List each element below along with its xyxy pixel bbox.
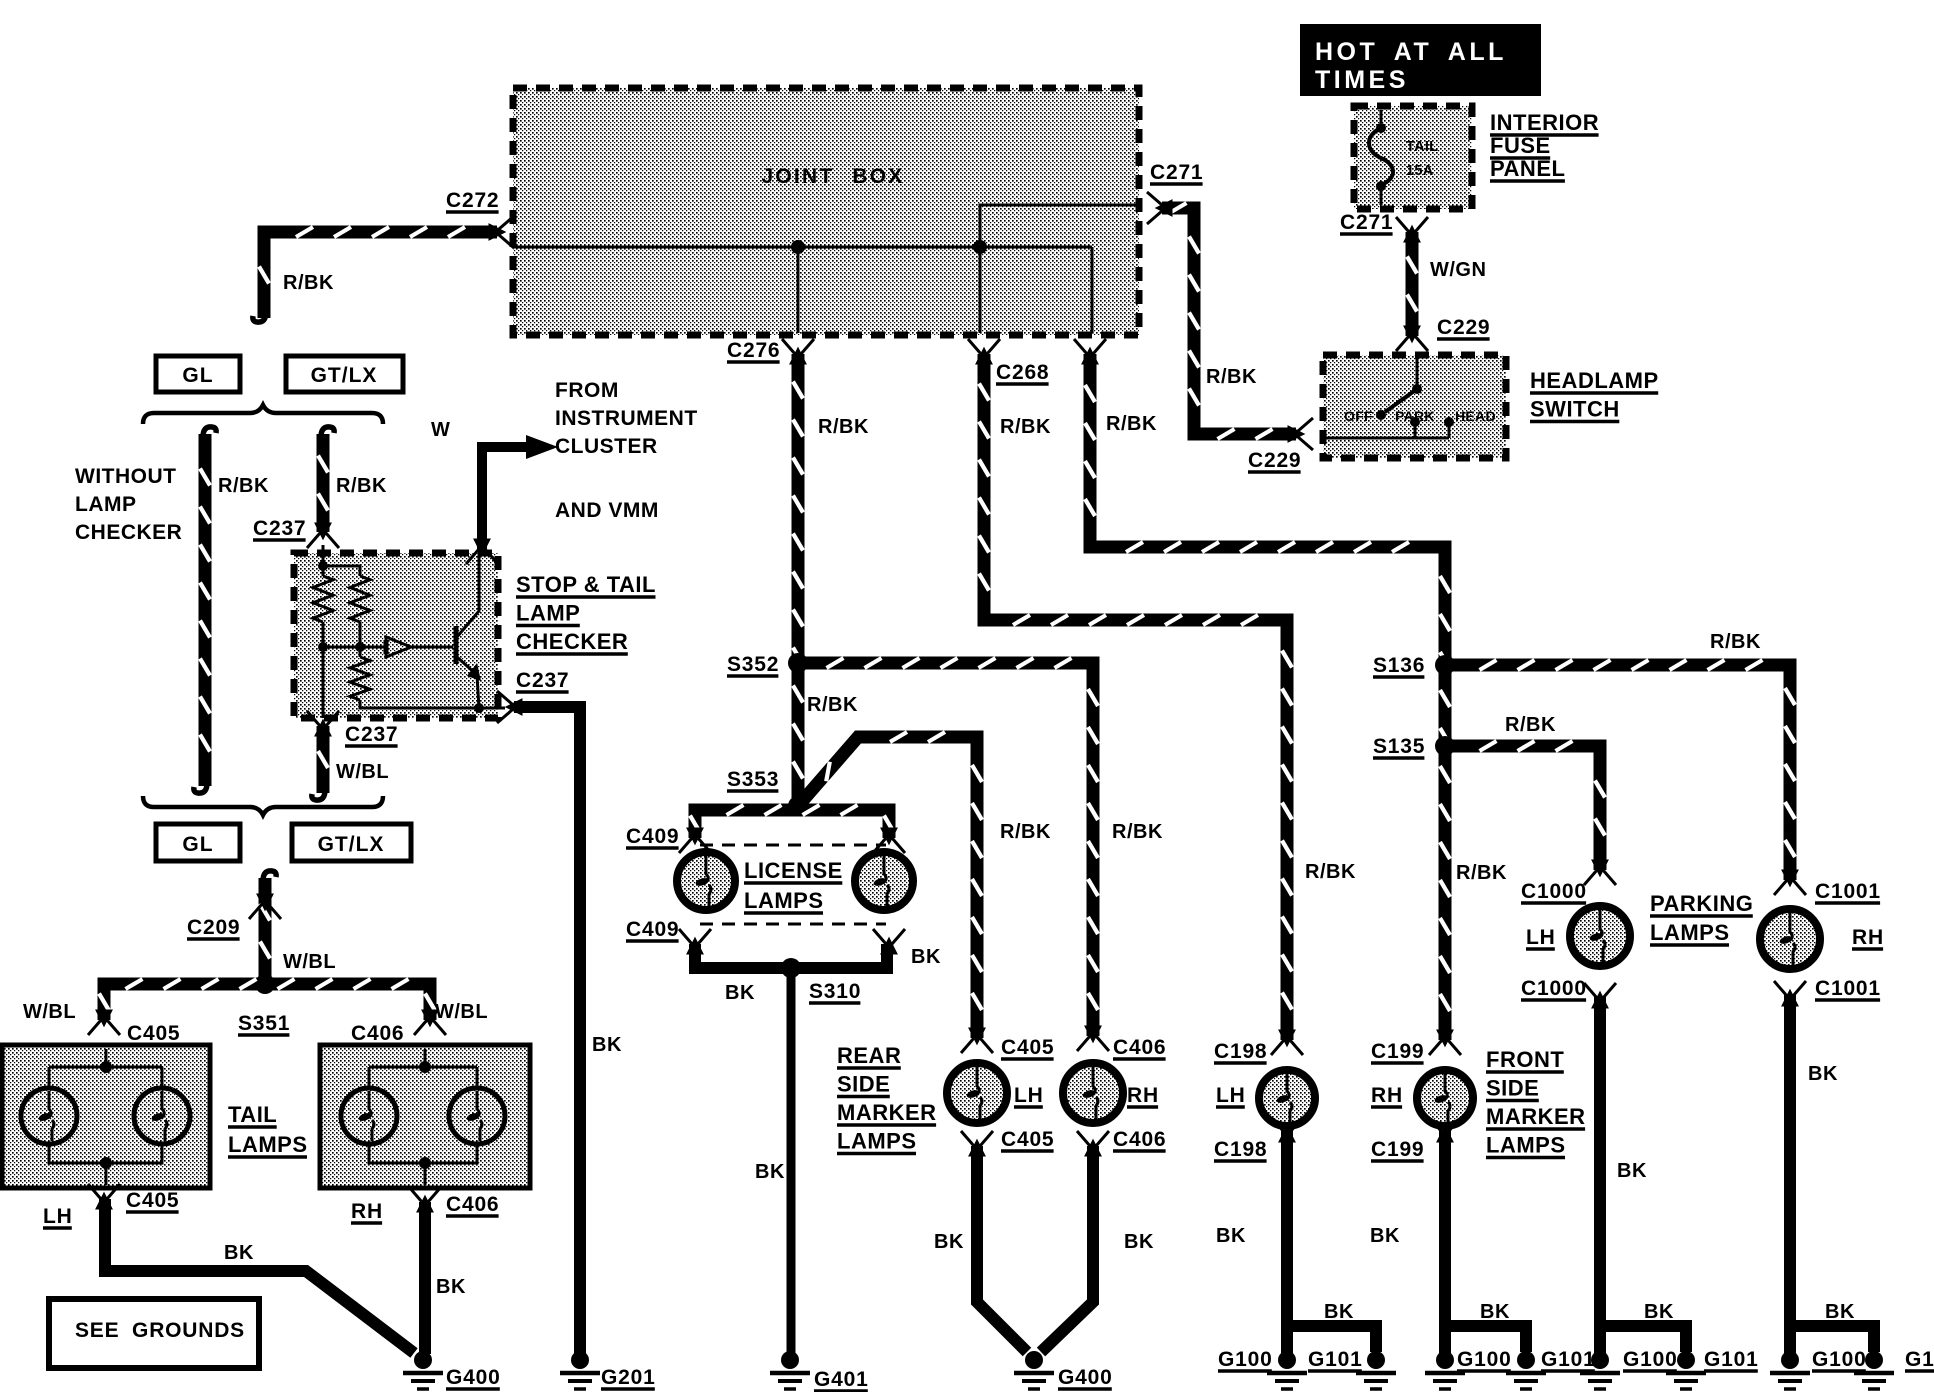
label R/BK GT/LX: [336, 475, 387, 497]
ground G400 left: [403, 1351, 443, 1389]
wire BK license lamps to S310: [695, 944, 887, 968]
wire BK LH front marker ground stub: [1287, 1326, 1376, 1352]
wire BK S310 to G401: [787, 968, 796, 1354]
wire BK LH front marker ground G100: [1267, 1351, 1307, 1389]
svg-text:R/BK: R/BK: [1112, 821, 1163, 843]
title PARKING LAMPS: [1650, 891, 1753, 945]
connector C268 exit1: [968, 339, 1000, 363]
arrowhead to instrument cluster: [526, 435, 558, 459]
svg-text:BK: BK: [934, 1231, 964, 1253]
wire R/BK from C272 to joint box: [259, 227, 497, 318]
HOT AT ALL TIMES box: [1300, 24, 1541, 96]
wire R/BK joint box C271 to switch C229: [1162, 203, 1296, 439]
svg-text:S135: S135: [1373, 735, 1425, 758]
svg-text:LAMPS: LAMPS: [1650, 920, 1730, 945]
svg-text:BK: BK: [1808, 1063, 1838, 1085]
svg-text:W/BL: W/BL: [283, 951, 336, 973]
wire BK RH front marker ground stub: [1445, 1326, 1526, 1352]
wire BK LH parking lamp ground stub: [1600, 1326, 1686, 1352]
svg-text:R/BK: R/BK: [1000, 416, 1051, 438]
svg-text:W/BL: W/BL: [336, 761, 389, 783]
connector C406 tail top: [414, 1011, 446, 1035]
svg-text:G100: G100: [1812, 1348, 1867, 1371]
label S135: [1373, 735, 1425, 758]
connector C1001 top: [1774, 871, 1806, 895]
svg-text:C409: C409: [626, 918, 679, 941]
parking lamp LH: [1570, 906, 1630, 966]
connector C405 rear top: [961, 1029, 993, 1053]
svg-text:BK: BK: [592, 1034, 622, 1056]
checker resistor R1: [313, 576, 333, 622]
svg-text:G101: G101: [1905, 1348, 1934, 1371]
label RH parking: [1852, 926, 1884, 949]
ground G201: [560, 1351, 600, 1389]
connector C1001 bottom: [1774, 981, 1806, 1005]
wire BK RH rear marker to G400: [1041, 1146, 1093, 1352]
svg-text:RH: RH: [1852, 926, 1884, 949]
headlamp switch contacts: [1323, 357, 1496, 438]
label G101 pair1: [1308, 1348, 1363, 1371]
svg-text:REAR: REAR: [837, 1043, 901, 1068]
svg-text:S352: S352: [727, 653, 779, 676]
svg-text:LAMPS: LAMPS: [837, 1129, 917, 1154]
joint box: [513, 88, 1139, 335]
label C198 top: [1214, 1040, 1267, 1063]
wire W/BL S351 to tail lamps: [99, 979, 435, 1020]
connector C198 top: [1271, 1031, 1303, 1055]
label BK park RH: [1808, 1063, 1838, 1085]
svg-text:C406: C406: [1113, 1128, 1166, 1151]
svg-text:C1000: C1000: [1521, 880, 1587, 903]
wire BK RH parking lamp ground G100: [1770, 1351, 1810, 1389]
connector C271 joint box: [1147, 192, 1171, 224]
svg-text:G101: G101: [1704, 1348, 1759, 1371]
wire BK RH parking lamp ground G101: [1854, 1351, 1894, 1389]
svg-text:R/BK: R/BK: [218, 475, 269, 497]
svg-text:W/GN: W/GN: [1430, 259, 1486, 281]
label W/BL left: [23, 1001, 76, 1023]
svg-text:BK: BK: [1825, 1301, 1855, 1323]
checker resistor R3: [350, 657, 370, 700]
label G100 pair4: [1812, 1348, 1867, 1371]
label RH front marker: [1371, 1084, 1403, 1107]
svg-text:PANEL: PANEL: [1490, 156, 1565, 181]
wire R/BK GL branch: [200, 434, 210, 786]
wire BK LH rear marker to G400: [977, 1146, 1027, 1352]
label BK stub2: [1480, 1301, 1510, 1323]
wire BK RH parking lamp: [1784, 994, 1796, 1354]
connector C409 right top: [873, 829, 905, 853]
joint box junction node 1: [791, 240, 805, 254]
label R/BK front RH: [1456, 862, 1507, 884]
svg-text:G400: G400: [1058, 1366, 1113, 1389]
label R/BK C272: [283, 272, 334, 294]
label C405 rear top: [1001, 1036, 1054, 1059]
svg-text:C1000: C1000: [1521, 977, 1587, 1000]
hook top GT/LX wire: [321, 427, 334, 437]
svg-text:RH: RH: [351, 1200, 383, 1223]
label S351: [238, 1012, 290, 1035]
svg-text:C271: C271: [1150, 161, 1203, 184]
svg-text:STOP & TAIL: STOP & TAIL: [516, 572, 656, 597]
connector C237 top: [307, 524, 339, 548]
svg-text:JOINT BOX: JOINT BOX: [762, 165, 905, 188]
connector C271 fuse: [1396, 217, 1428, 241]
title STOP & TAIL LAMP CHECKER: [516, 572, 656, 654]
label C1001 bottom: [1815, 977, 1881, 1000]
wire BK RH parking lamp ground stub: [1790, 1326, 1874, 1352]
wire R/BK S353 branch to LH rear marker: [798, 732, 982, 1038]
title TAIL LAMPS: [228, 1102, 308, 1157]
svg-text:BK: BK: [1617, 1160, 1647, 1182]
wire BK RH front marker ground G101: [1506, 1351, 1546, 1389]
svg-text:GL: GL: [182, 364, 213, 387]
label BK G201: [592, 1034, 622, 1056]
label R/BK rear LH: [1000, 821, 1051, 843]
tail lamp LH bulb 2: [134, 1088, 190, 1144]
connector C276: [782, 339, 814, 363]
tail lamp LH bulb 1: [21, 1088, 77, 1144]
svg-text:G101: G101: [1308, 1348, 1363, 1371]
label G100 pair1: [1218, 1348, 1273, 1371]
brace bottom: [143, 796, 383, 815]
svg-text:G101: G101: [1541, 1348, 1596, 1371]
label BK license left: [725, 982, 755, 1004]
label LH tail: [43, 1205, 73, 1228]
tail lamp LH internal wiring: [49, 1049, 162, 1185]
rear side marker lamp RH: [1063, 1063, 1123, 1123]
connector C409 left bottom: [679, 929, 711, 953]
SEE GROUNDS box: [49, 1299, 259, 1368]
label S310: [809, 980, 861, 1003]
label W/BL right: [435, 1001, 488, 1023]
label C409 bottom: [626, 918, 679, 941]
svg-text:C409: C409: [626, 825, 679, 848]
svg-text:BK: BK: [224, 1242, 254, 1264]
fuse TAIL 15A: [1369, 110, 1438, 205]
label C406 rear bottom: [1113, 1128, 1166, 1151]
svg-text:R/BK: R/BK: [1206, 366, 1257, 388]
wire BK RH front marker ground G100: [1425, 1351, 1465, 1389]
label R/BK C276: [818, 416, 869, 438]
svg-text:FUSE: FUSE: [1490, 133, 1551, 158]
title LICENSE LAMPS: [744, 858, 843, 913]
tail lamp RH internal wiring: [369, 1049, 477, 1185]
svg-text:C271: C271: [1340, 211, 1393, 234]
wire R/BK C268 exit1 to LH front marker: [979, 354, 1292, 1040]
svg-text:INTERIOR: INTERIOR: [1490, 110, 1599, 135]
connector C1000 top: [1584, 861, 1616, 885]
label R/BK C271: [1206, 366, 1257, 388]
label G201: [601, 1366, 656, 1389]
svg-text:W/BL: W/BL: [435, 1001, 488, 1023]
GL box bottom: [156, 824, 240, 861]
label C405 tail bottom: [126, 1189, 179, 1212]
connector C272: [490, 216, 514, 248]
label BK license right: [911, 946, 941, 968]
front side marker lamp LH: [1259, 1070, 1315, 1126]
svg-text:HEAD: HEAD: [1455, 408, 1496, 424]
svg-text:GL: GL: [182, 833, 213, 856]
svg-text:R/BK: R/BK: [818, 416, 869, 438]
wire license lamps feed: [690, 805, 894, 838]
joint box internal bus wire: [513, 205, 1139, 333]
svg-text:RH: RH: [1371, 1084, 1403, 1107]
splice S352: [788, 653, 808, 673]
svg-text:BK: BK: [436, 1276, 466, 1298]
label BK tail diag: [436, 1276, 466, 1298]
splice S136: [1435, 655, 1455, 675]
label C276: [727, 339, 780, 362]
label BK rear LH: [934, 1231, 964, 1253]
svg-text:BK: BK: [1216, 1225, 1246, 1247]
wire BK LH parking lamp ground G101: [1666, 1351, 1706, 1389]
GT/LX box top: [286, 356, 403, 392]
svg-text:R/BK: R/BK: [336, 475, 387, 497]
label BK front RH: [1370, 1225, 1400, 1247]
connector at checker top for W: [466, 540, 498, 564]
svg-text:MARKER: MARKER: [1486, 1104, 1586, 1129]
label C406 tail top: [351, 1022, 404, 1045]
interior fuse panel box: [1354, 106, 1472, 209]
svg-text:S351: S351: [238, 1012, 290, 1035]
checker emitter node: [474, 703, 484, 713]
splice S353: [788, 796, 808, 816]
wire BK LH parking lamp ground G100: [1580, 1351, 1620, 1389]
label G101 pair3: [1704, 1348, 1759, 1371]
svg-text:CHECKER: CHECKER: [75, 521, 182, 544]
svg-text:INSTRUMENT: INSTRUMENT: [555, 407, 698, 430]
svg-text:C406: C406: [1113, 1036, 1166, 1059]
label W/BL top: [283, 951, 336, 973]
stop and tail lamp checker box: [294, 553, 498, 718]
label C405 rear bottom: [1001, 1128, 1054, 1151]
svg-text:BK: BK: [755, 1161, 785, 1183]
wire R/BK C268 exit2 to front lamps bus: [1085, 354, 1450, 1040]
connector C199 top: [1429, 1031, 1461, 1055]
label G101 pair2: [1541, 1348, 1596, 1371]
svg-text:C199: C199: [1371, 1138, 1424, 1161]
connector C237 bottom: [307, 711, 339, 735]
label C406 rear top: [1113, 1036, 1166, 1059]
svg-text:C268: C268: [996, 361, 1049, 384]
svg-text:CHECKER: CHECKER: [516, 629, 628, 654]
label G401: [814, 1368, 869, 1391]
label BK stub3: [1644, 1301, 1674, 1323]
checker buffer symbol: [386, 637, 411, 657]
label BK front LH: [1216, 1225, 1246, 1247]
label RH rear marker: [1127, 1084, 1159, 1107]
svg-text:W: W: [431, 419, 450, 441]
svg-text:BK: BK: [1480, 1301, 1510, 1323]
svg-text:GT/LX: GT/LX: [311, 364, 378, 387]
label BK park LH: [1617, 1160, 1647, 1182]
label R/BK S135: [1505, 714, 1556, 736]
svg-text:C1001: C1001: [1815, 880, 1881, 903]
label G100 pair3: [1623, 1348, 1678, 1371]
svg-text:CLUSTER: CLUSTER: [555, 435, 658, 458]
label C199 top: [1371, 1040, 1424, 1063]
title FROM INSTRUMENT CLUSTER: [555, 379, 698, 458]
svg-text:C199: C199: [1371, 1040, 1424, 1063]
svg-text:S310: S310: [809, 980, 861, 1003]
ground G401: [770, 1351, 810, 1389]
svg-text:S353: S353: [727, 768, 779, 791]
label R/BK below S352: [807, 694, 858, 716]
svg-text:BK: BK: [725, 982, 755, 1004]
title INTERIOR FUSE PANEL: [1490, 110, 1599, 181]
checker node base-divider: [318, 642, 365, 652]
svg-text:WITHOUT: WITHOUT: [75, 465, 176, 488]
wire R/BK S136 branch to RH parking: [1452, 660, 1795, 880]
label C409 top: [626, 825, 679, 848]
svg-text:C405: C405: [126, 1189, 179, 1212]
svg-text:C405: C405: [1001, 1128, 1054, 1151]
label S353: [727, 768, 779, 791]
GL box top: [156, 356, 240, 392]
svg-text:C209: C209: [187, 916, 240, 939]
label C1001 top: [1815, 880, 1881, 903]
wire W/GN fuse to switch: [1407, 232, 1417, 336]
title HEADLAMP SWITCH: [1530, 368, 1659, 422]
wire R/BK S352 branch to RH rear marker: [805, 658, 1098, 1036]
connector C229 fuse side: [1396, 327, 1428, 351]
svg-text:FROM: FROM: [555, 379, 619, 402]
splice S310: [781, 958, 801, 978]
svg-text:R/BK: R/BK: [283, 272, 334, 294]
svg-text:SIDE: SIDE: [1486, 1076, 1539, 1101]
svg-text:LH: LH: [1526, 926, 1556, 949]
svg-text:W/BL: W/BL: [23, 1001, 76, 1023]
label C268: [996, 361, 1049, 384]
wire R/BK C276 to S353: [793, 354, 803, 806]
svg-text:PARKING: PARKING: [1650, 891, 1753, 916]
label G101 pair4: [1905, 1348, 1934, 1371]
wire BK RH tail lamp to G400: [419, 1202, 431, 1354]
label R/BK S136: [1710, 631, 1761, 653]
svg-text:R/BK: R/BK: [1000, 821, 1051, 843]
connector C199 bottom: [1429, 1117, 1461, 1141]
tail lamp RH bulb 2: [449, 1088, 505, 1144]
label RH tail: [351, 1200, 383, 1223]
title REAR SIDE MARKER LAMPS: [837, 1043, 937, 1154]
svg-text:R/BK: R/BK: [1456, 862, 1507, 884]
front side marker lamp RH: [1417, 1070, 1473, 1126]
GT/LX box bottom: [292, 824, 411, 861]
wire BK LH front marker: [1281, 1130, 1293, 1354]
svg-text:G401: G401: [814, 1368, 869, 1391]
svg-text:C272: C272: [446, 189, 499, 212]
svg-text:C198: C198: [1214, 1138, 1267, 1161]
checker transistor Q1: [456, 553, 481, 708]
svg-text:RH: RH: [1127, 1084, 1159, 1107]
connector C409 left top: [679, 829, 711, 853]
svg-text:LAMPS: LAMPS: [744, 888, 824, 913]
svg-text:C229: C229: [1248, 449, 1301, 472]
svg-text:LAMPS: LAMPS: [1486, 1133, 1566, 1158]
svg-text:C237: C237: [345, 723, 398, 746]
label BK rear RH: [1124, 1231, 1154, 1253]
svg-text:C276: C276: [727, 339, 780, 362]
tail lamp LH box: [2, 1045, 210, 1188]
label C271 fuse: [1340, 211, 1393, 234]
connector C198 bottom: [1271, 1117, 1303, 1141]
wire BK LH front marker ground G101: [1356, 1351, 1396, 1389]
splice S351: [255, 974, 275, 994]
svg-text:R/BK: R/BK: [1305, 861, 1356, 883]
svg-text:SWITCH: SWITCH: [1530, 397, 1620, 422]
label BK tail LH: [224, 1242, 254, 1264]
license lamp right: [855, 852, 913, 910]
svg-text:LAMP: LAMP: [516, 601, 580, 626]
brace top: [143, 405, 383, 424]
tail lamp RH box: [320, 1045, 530, 1188]
svg-text:TAIL: TAIL: [228, 1102, 277, 1127]
hook bottom W/BL wire: [312, 790, 325, 800]
headlamp switch box: [1323, 355, 1506, 458]
label LH parking: [1526, 926, 1556, 949]
wire BK LH tail lamp to G400: [105, 1199, 414, 1353]
connector C1000 bottom: [1584, 983, 1616, 1007]
svg-text:C198: C198: [1214, 1040, 1267, 1063]
checker resistor R2: [350, 576, 370, 622]
label W/BL mid: [336, 761, 389, 783]
svg-text:G100: G100: [1218, 1348, 1273, 1371]
joint box junction node 2: [973, 240, 987, 254]
checker internal wires: [323, 545, 505, 718]
label S136: [1373, 654, 1425, 677]
svg-text:C405: C405: [1001, 1036, 1054, 1059]
svg-text:LAMP: LAMP: [75, 493, 137, 516]
title FRONT SIDE MARKER LAMPS: [1486, 1047, 1586, 1158]
label C272: [446, 189, 499, 212]
svg-text:G100: G100: [1457, 1348, 1512, 1371]
label W/GN: [1430, 259, 1486, 281]
wire W/BL below checker: [318, 726, 328, 793]
label R/BK GL: [218, 475, 269, 497]
label R/BK C268a: [1000, 416, 1051, 438]
wire BK from checker C237 to G201: [514, 707, 580, 1354]
svg-text:LH: LH: [1216, 1084, 1246, 1107]
label C229 fuse side: [1437, 316, 1490, 339]
label R/BK C268b: [1106, 413, 1157, 435]
connector C237 right: [497, 691, 521, 723]
svg-text:R/BK: R/BK: [1505, 714, 1556, 736]
svg-text:BK: BK: [1324, 1301, 1354, 1323]
hook top GL wire: [203, 427, 216, 437]
svg-text:C229: C229: [1437, 316, 1490, 339]
title WITHOUT LAMP CHECKER: [75, 465, 182, 544]
svg-text:R/BK: R/BK: [1106, 413, 1157, 435]
connector C405 rear bottom: [961, 1131, 993, 1155]
svg-text:BK: BK: [1370, 1225, 1400, 1247]
svg-text:AND VMM: AND VMM: [555, 499, 659, 522]
connector C409 right bottom: [873, 929, 905, 953]
svg-text:PARK: PARK: [1395, 408, 1435, 424]
wire R/BK S135 branch to LH parking: [1452, 741, 1605, 870]
svg-text:LICENSE: LICENSE: [744, 858, 843, 883]
label R/BK front LH: [1305, 861, 1356, 883]
label C1000 top: [1521, 880, 1587, 903]
label G100 pair2: [1457, 1348, 1512, 1371]
tail lamp RH bulb 1: [341, 1088, 397, 1144]
svg-text:G201: G201: [601, 1366, 656, 1389]
hook bottom GL wire: [194, 783, 207, 793]
label C237 right: [516, 669, 569, 692]
svg-text:C1001: C1001: [1815, 977, 1881, 1000]
svg-text:G400: G400: [446, 1366, 501, 1389]
svg-text:OFF: OFF: [1344, 408, 1373, 424]
